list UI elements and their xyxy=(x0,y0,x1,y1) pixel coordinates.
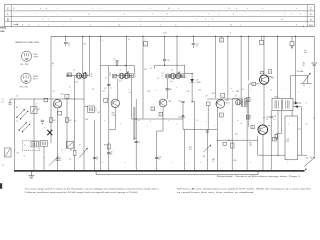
feedback line y140.2 xyxy=(217,140,258,141)
svg-text:1e: 1e xyxy=(169,89,171,91)
svg-text:C22: C22 xyxy=(266,117,269,119)
svg-text:see: see xyxy=(304,50,307,52)
svg-text:e: e xyxy=(52,65,53,67)
svg-text:C19: C19 xyxy=(228,140,231,142)
svg-text:1u: 1u xyxy=(110,88,112,90)
svg-text:11: 11 xyxy=(166,14,168,16)
svg-text:a8: a8 xyxy=(91,76,93,78)
wire battery to switch xyxy=(313,65,315,156)
svg-text:C21: C21 xyxy=(235,134,238,136)
svg-text:.05: .05 xyxy=(138,142,140,144)
svg-text:a: a xyxy=(306,103,307,105)
svg-text:R2: R2 xyxy=(84,44,86,46)
capacitor C3a xyxy=(41,120,44,124)
wire x277.5 rail to T4 xyxy=(277,36,279,98)
svg-text:1: 1 xyxy=(298,92,299,94)
svg-text:R12: R12 xyxy=(187,91,190,93)
rail junction dots xyxy=(65,36,296,37)
svg-text:The wave-range switch is shown: The wave-range switch is shown in the M … xyxy=(25,187,159,190)
svg-text:a: a xyxy=(178,8,179,10)
svg-text:14: 14 xyxy=(3,165,5,167)
wire x143 rail down xyxy=(142,36,144,99)
boxed label right of T5 lower xyxy=(246,115,250,119)
svg-text:C5: C5 xyxy=(59,158,61,160)
svg-text:1: 1 xyxy=(66,96,67,98)
svg-text:u: u xyxy=(208,24,209,26)
battery wire labels xyxy=(306,87,315,126)
capacitor C12 on rail at x193 xyxy=(192,36,199,48)
svg-text:e2: e2 xyxy=(35,104,37,106)
svg-text:4 1: 4 1 xyxy=(168,8,170,10)
svg-text:a: a xyxy=(125,162,126,164)
svg-text:41: 41 xyxy=(66,76,68,78)
transistor TR3 xyxy=(159,99,167,107)
svg-text:u: u xyxy=(62,24,63,26)
svg-text:T5: T5 xyxy=(235,96,237,98)
wire TR2 emitter jog xyxy=(109,107,116,130)
svg-text:1: 1 xyxy=(196,19,197,21)
svg-text:22k: 22k xyxy=(102,91,105,93)
wire x278 to return xyxy=(277,111,278,156)
wire T1 to rail x89.7 xyxy=(89,36,91,75)
diagonal-marked box x66-74 y141-148 xyxy=(66,142,80,149)
revision table frame xyxy=(5,5,315,27)
svg-text:4.7k: 4.7k xyxy=(189,149,192,151)
pinout circle V2 labels xyxy=(19,76,39,88)
svg-text:4: 4 xyxy=(222,95,223,97)
svg-text:VOLUME: VOLUME xyxy=(297,71,304,73)
TR4 type label xyxy=(225,100,229,104)
boxed component x88-94 y106 xyxy=(84,106,97,113)
wire T3 left leg to TR3 xyxy=(166,78,168,99)
svg-text:C14: C14 xyxy=(167,60,170,62)
wire x248.8 rail down xyxy=(248,36,250,80)
return wire below bus xyxy=(96,171,258,175)
svg-text:R1: R1 xyxy=(38,109,40,111)
revision table right column letters xyxy=(303,6,313,27)
wire x177 rail into T3 top xyxy=(176,36,178,73)
transistor TR2 xyxy=(111,99,119,107)
svg-text:a1: a1 xyxy=(157,78,159,80)
transistor TR1 boxed pin label xyxy=(65,94,69,98)
svg-text:C6: C6 xyxy=(96,156,98,158)
svg-text:C12: C12 xyxy=(196,43,199,45)
svg-text:R11: R11 xyxy=(148,91,151,93)
driver transformer T5 xyxy=(232,96,247,120)
capacitor C1 on rail drop x65.7 xyxy=(64,36,70,46)
wire column x34 xyxy=(33,99,35,171)
wire T2 base leg x117.8 xyxy=(117,78,119,98)
svg-text:1s: 1s xyxy=(128,39,130,41)
svg-text:ra: ra xyxy=(175,23,177,26)
margin note left edge xyxy=(0,26,6,33)
svg-text:48: 48 xyxy=(134,76,136,78)
switch S1 xyxy=(304,156,314,170)
capacitor C22 labels xyxy=(263,117,269,121)
rail dot x82.8 with drop to T1 xyxy=(82,36,83,73)
svg-text:2u: 2u xyxy=(134,74,136,76)
wire T2 right leg x131.5 xyxy=(131,78,133,119)
revision table row 3 entries xyxy=(20,19,283,21)
wire TR6 emitter to bus xyxy=(262,135,264,171)
svg-text:4e: 4e xyxy=(230,24,232,26)
TR3 second boxed label xyxy=(159,112,163,116)
wire input stage top y99 xyxy=(15,98,84,100)
svg-text:C: C xyxy=(310,6,312,10)
svg-text:5: 5 xyxy=(248,100,249,102)
wire TR3 emitter jog xyxy=(157,107,163,131)
svg-text:R5: R5 xyxy=(69,120,71,122)
transistor TR4 xyxy=(216,99,225,108)
svg-text:a: a xyxy=(284,14,285,16)
svg-text:a: a xyxy=(236,8,237,10)
svg-text:TR5: TR5 xyxy=(271,77,274,79)
component and dot on rail at x292 xyxy=(290,36,294,49)
svg-text:e4: e4 xyxy=(79,145,81,147)
wire x154.7 stub xyxy=(150,65,155,70)
svg-text:e: e xyxy=(145,39,146,41)
wire TR4 emitter to bus xyxy=(216,107,218,171)
svg-text:TRANSISTOR CONNECTIONS: TRANSISTOR CONNECTIONS xyxy=(15,41,40,44)
svg-text:e: e xyxy=(160,24,161,26)
svg-text:0.1: 0.1 xyxy=(273,118,275,120)
electrolytic x276-281 jog xyxy=(275,111,281,140)
svg-text:T1: T1 xyxy=(74,70,76,72)
wire T1 left leg x74.6 xyxy=(74,76,76,99)
svg-text:R11: R11 xyxy=(145,69,148,71)
svg-text:R14: R14 xyxy=(236,91,239,93)
ferrite aerial dashed box xyxy=(22,141,40,151)
wire TR1 emitter down xyxy=(57,108,59,171)
svg-text:a: a xyxy=(206,121,207,123)
svg-text:e: e xyxy=(262,8,263,10)
svg-text:2a: 2a xyxy=(66,73,68,75)
wire column x136.2 xyxy=(133,99,140,171)
svg-text:C8: C8 xyxy=(69,159,71,161)
revision table left column letters xyxy=(7,6,9,21)
svg-text:a: a xyxy=(102,40,103,42)
svg-text:C1: C1 xyxy=(68,42,70,44)
TR2 type label xyxy=(112,113,116,117)
svg-text:1: 1 xyxy=(218,14,219,16)
resistor R5 xyxy=(66,118,72,123)
TR4 boxed label above xyxy=(221,93,225,97)
svg-text:C16: C16 xyxy=(198,89,201,91)
wire column x14.7 xyxy=(14,99,16,171)
svg-text:1a: 1a xyxy=(95,108,97,110)
svg-text:2: 2 xyxy=(105,100,106,102)
capacitor C8 on x108.8 xyxy=(104,84,110,90)
svg-text:C16: C16 xyxy=(178,116,181,118)
TR5 small boxed label left-above xyxy=(261,71,264,74)
svg-text:u4: u4 xyxy=(2,101,4,103)
supply rail xyxy=(51,35,314,37)
svg-text:C4: C4 xyxy=(53,91,55,93)
svg-text:a1: a1 xyxy=(138,120,140,122)
svg-text:1a 4: 1a 4 xyxy=(119,81,122,83)
resistor R4 xyxy=(50,118,56,123)
wire column x143 lower xyxy=(142,99,144,119)
svg-text:R10: R10 xyxy=(104,144,107,146)
svg-text:1u: 1u xyxy=(118,24,120,26)
svg-text:4n 41: 4n 41 xyxy=(163,33,167,35)
svg-text:Reprinted : Service of Elec: Reprinted : Service of Electronic design… xyxy=(217,175,300,178)
resistor R10 on x108.8 xyxy=(104,144,110,149)
svg-text:a: a xyxy=(145,44,146,46)
wire IF2 top line y65.2 xyxy=(155,64,185,66)
svg-text:R6: R6 xyxy=(70,149,72,151)
wavechange switch S2b xyxy=(18,122,30,132)
svg-text:50: 50 xyxy=(96,158,98,160)
svg-text:TR3: TR3 xyxy=(168,101,171,103)
svg-text:a: a xyxy=(90,24,91,26)
svg-text:25: 25 xyxy=(159,158,161,160)
svg-text:SPOT: SPOT xyxy=(34,56,39,58)
wavechange switch S2a xyxy=(16,107,28,119)
svg-text:S2: S2 xyxy=(16,107,18,109)
svg-text:24e: 24e xyxy=(91,73,94,75)
svg-text:ta: ta xyxy=(22,23,23,26)
diode D1 detector xyxy=(190,74,200,103)
resistor R1 box xyxy=(31,107,40,114)
svg-text:TR5 - TR6: TR5 - TR6 xyxy=(19,86,27,88)
svg-text:3: 3 xyxy=(160,114,161,116)
svg-text:.04: .04 xyxy=(196,45,198,47)
svg-text:250: 250 xyxy=(286,141,289,143)
wire TR5 emitter down xyxy=(263,84,265,124)
TR4 emitter labels xyxy=(212,159,215,163)
transistor TR5 (bold) xyxy=(260,75,269,84)
svg-text:L2 L3: L2 L3 xyxy=(75,82,79,84)
svg-text:4: 4 xyxy=(212,19,213,21)
svg-text:3: 3 xyxy=(152,109,153,111)
svg-text:u: u xyxy=(15,149,16,151)
wire T4 secondary to speaker xyxy=(291,111,293,117)
svg-text:R18: R18 xyxy=(85,119,88,121)
wire x241.1 rail down xyxy=(240,36,242,99)
svg-text:4: 4 xyxy=(124,14,125,16)
svg-text:L6: L6 xyxy=(162,73,164,75)
oscillator coil T1 xyxy=(66,70,93,83)
svg-text:1: 1 xyxy=(140,24,141,26)
svg-text:L4: L4 xyxy=(109,73,111,75)
svg-text:.02: .02 xyxy=(68,45,70,47)
wire x248.8 lower xyxy=(248,84,250,127)
svg-text:e4: e4 xyxy=(105,78,107,80)
svg-text:e: e xyxy=(291,14,292,16)
wire aerial feed x51 xyxy=(50,36,52,99)
resistor box on rail at x261 xyxy=(259,36,263,44)
svg-text:e: e xyxy=(140,19,141,21)
wire column x51 lower xyxy=(50,99,52,143)
svg-text:1: 1 xyxy=(163,19,164,21)
TR5 boxed pin label above xyxy=(268,70,271,74)
wire x247.1 to bus xyxy=(247,120,252,171)
capacitor C9 on x108.8 xyxy=(107,152,113,156)
svg-text:e4: e4 xyxy=(270,89,272,91)
small box x208 y103 xyxy=(207,102,211,130)
small note above rail xyxy=(163,32,231,34)
svg-text:C6: C6 xyxy=(74,121,76,123)
wire volume feed y129.5 xyxy=(183,129,217,131)
wire x108.8 to bus xyxy=(108,129,110,171)
svg-text:4: 4 xyxy=(300,14,301,16)
revision table row 2 entries xyxy=(12,13,301,16)
svg-text:1: 1 xyxy=(152,14,153,16)
svg-text:11: 11 xyxy=(228,8,230,10)
IF transformer T3 xyxy=(157,70,187,83)
svg-text:e2: e2 xyxy=(150,68,152,70)
pinout circle V1 (red spot) xyxy=(22,51,32,61)
svg-text:P.B.S: P.B.S xyxy=(0,26,6,29)
capacitor C15 and electrolytic on x183 xyxy=(178,100,185,129)
svg-text:a: a xyxy=(285,88,286,90)
wire x134.3 corner into T2 xyxy=(133,66,135,74)
svg-text:C25: C25 xyxy=(273,116,276,118)
svg-text:e: e xyxy=(48,24,49,26)
aerial feed labels xyxy=(52,62,54,67)
svg-text:D1: D1 xyxy=(197,80,199,82)
wire x264 rail to TR5 xyxy=(263,36,265,74)
svg-text:L1: L1 xyxy=(24,145,26,147)
svg-text:SPOT: SPOT xyxy=(33,79,38,81)
wire speaker return y155.2 xyxy=(258,136,307,155)
wire x227.9 rail down xyxy=(227,36,229,99)
binder mark left edge xyxy=(0,183,2,189)
TR2 boxed pin label xyxy=(104,98,108,102)
svg-text:C: C xyxy=(7,6,9,10)
alignment cross mark xyxy=(47,130,52,135)
svg-text:u: u xyxy=(247,8,248,10)
volume control VR1 xyxy=(291,71,312,87)
svg-text:1a: 1a xyxy=(61,149,63,151)
svg-text:1: 1 xyxy=(48,19,49,21)
svg-text:4: 4 xyxy=(118,19,119,21)
trimmer arrow input xyxy=(49,157,58,166)
svg-text:R15: R15 xyxy=(212,159,215,161)
svg-text:C2: C2 xyxy=(16,95,18,97)
svg-text:C15: C15 xyxy=(178,100,181,102)
svg-text:5k: 5k xyxy=(303,85,305,87)
transistor TR1 xyxy=(53,100,61,108)
svg-text:TR1 - TR4: TR1 - TR4 xyxy=(20,64,28,66)
wire detector link y73.5 xyxy=(185,73,193,74)
rail note right side xyxy=(304,50,307,54)
tuning gang cluster left edge xyxy=(2,99,15,167)
coil box L2 xyxy=(41,141,48,172)
wire x156.7 to bus xyxy=(155,131,162,171)
boxed pin label left of TR5 xyxy=(252,82,256,86)
IF transformer T2 xyxy=(105,70,136,83)
svg-text:R13: R13 xyxy=(212,93,215,95)
svg-text:C7: C7 xyxy=(113,59,115,61)
wire column x74.6 lower xyxy=(70,99,76,171)
capacitor C11 on x167.2 xyxy=(165,89,172,91)
wire column x67 xyxy=(66,99,68,149)
svg-text:TR1: TR1 xyxy=(61,94,64,96)
svg-text:47k: 47k xyxy=(17,153,20,155)
svg-text:R8: R8 xyxy=(98,112,100,114)
TR6 second boxed label xyxy=(272,137,276,141)
svg-text:25: 25 xyxy=(59,160,61,162)
svg-text:a2: a2 xyxy=(24,156,26,158)
boxed note on rail at x221 xyxy=(219,36,223,42)
pinout circle V2 (white spot) xyxy=(21,73,31,83)
TR4 boxed pin label xyxy=(219,113,223,117)
svg-text:R7: R7 xyxy=(92,89,94,91)
wire rail right corner down xyxy=(313,36,315,61)
svg-text:10k: 10k xyxy=(241,89,244,91)
svg-text:e: e xyxy=(208,14,209,16)
svg-text:sz: sz xyxy=(28,24,30,26)
svg-text:1: 1 xyxy=(42,19,43,21)
boxed label below TR1 xyxy=(58,111,62,115)
svg-text:C13: C13 xyxy=(159,156,162,158)
svg-text:L5: L5 xyxy=(109,75,111,77)
svg-text:25: 25 xyxy=(111,154,113,156)
TR6 boxed pin label xyxy=(251,125,254,129)
svg-text:C2: C2 xyxy=(2,99,4,101)
svg-text:4: 4 xyxy=(221,115,222,117)
svg-text:a: a xyxy=(230,32,231,34)
wire x271.2 to bus xyxy=(270,111,277,172)
svg-text:C17: C17 xyxy=(205,96,208,98)
svg-text:a: a xyxy=(38,24,39,26)
svg-text:TR4: TR4 xyxy=(225,100,228,102)
ground symbol xyxy=(29,171,35,178)
wire x207.3 to bus with trimmer xyxy=(203,130,211,172)
svg-text:u: u xyxy=(147,125,148,127)
wire T2 left leg x108.8 xyxy=(108,66,110,130)
svg-text:C10: C10 xyxy=(133,138,136,140)
svg-text:a 1: a 1 xyxy=(281,19,283,21)
capacitor on x207.3 y131.5 xyxy=(206,130,209,132)
wire x84 osc leg xyxy=(83,76,85,99)
revision table row 4 entries xyxy=(14,23,304,26)
junction dots on y65.5 xyxy=(116,65,126,66)
labels lower left xyxy=(17,153,26,158)
wire AGC line y119 xyxy=(132,118,184,120)
svg-text:a: a xyxy=(240,24,241,26)
svg-text:T3: T3 xyxy=(171,70,173,72)
wire TR5 collector to x272.4 xyxy=(267,76,272,78)
wire column x94.6 xyxy=(93,120,99,171)
svg-text:C8: C8 xyxy=(104,88,106,90)
svg-text:TR2: TR2 xyxy=(112,113,115,115)
svg-text:OC71: OC71 xyxy=(225,102,229,104)
TR3 boxed pin label xyxy=(151,107,155,111)
svg-text:(1: (1 xyxy=(13,8,15,10)
capacitor C5 on TR1 emitter xyxy=(56,158,62,162)
svg-text:6: 6 xyxy=(274,139,275,141)
svg-text:C28: C28 xyxy=(286,139,289,141)
battery B1 xyxy=(302,62,317,66)
jack socket left edge xyxy=(5,148,12,157)
labels near TR4 base xyxy=(205,91,239,97)
wire TR4 top line y99 xyxy=(207,98,241,100)
resistor box left of TR1 xyxy=(44,98,48,102)
svg-text:Collector and base measured on: Collector and base measured on 20 kΩ ran… xyxy=(25,191,138,194)
svg-text:b/S turns. All core temperatu: b/S turns. All core temperatures are quo… xyxy=(177,187,311,190)
svg-text:S1: S1 xyxy=(306,158,308,160)
svg-text:R17: R17 xyxy=(249,142,252,144)
svg-text:R12: R12 xyxy=(189,147,192,149)
diodes D2 D3 xyxy=(293,102,301,109)
rail value labels xyxy=(84,39,146,45)
scattered component value labels xyxy=(15,86,299,164)
svg-text:1: 1 xyxy=(150,8,151,10)
svg-text:a1: a1 xyxy=(241,123,243,125)
